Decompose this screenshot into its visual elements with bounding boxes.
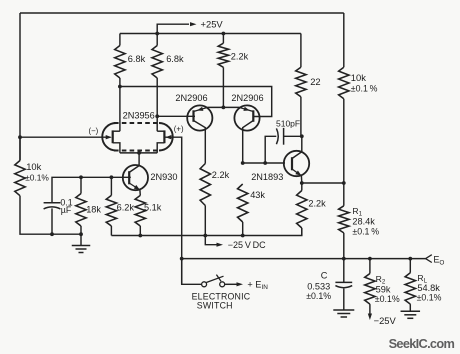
wire RL bottom lead <box>409 304 411 311</box>
wire R2 top lead <box>369 259 371 274</box>
label 2N3956 <box>123 110 155 120</box>
wire 510pF left lead <box>265 136 276 163</box>
power -25V DC arrowhead <box>217 243 224 247</box>
wire Q2 base feed <box>120 87 272 117</box>
capacitor 0.1uF curved plate <box>44 207 61 209</box>
label uF <box>61 205 72 215</box>
power +25V arrowhead <box>190 22 197 26</box>
svg-text:±0.1%: ±0.1% <box>417 292 442 302</box>
wire 6.8k R-B top lead <box>156 34 158 46</box>
svg-text:2.2k: 2.2k <box>231 51 249 61</box>
wire +25V rail to 22 <box>300 34 302 68</box>
label (+) input <box>174 125 184 134</box>
node C top junction <box>342 257 346 261</box>
node 2.2k mid bottom junction <box>203 234 207 238</box>
wire 2.2k Q3 bottom lead <box>301 228 303 236</box>
wire 18k top lead <box>80 177 82 193</box>
resistor 18k <box>76 194 86 227</box>
label SWITCH <box>197 301 233 311</box>
wire +25V rail <box>120 33 301 35</box>
ground symbol (bias network) <box>72 246 91 253</box>
label 0.533 <box>307 281 330 291</box>
wire top feedback rail (inverting input to 10k) <box>20 12 344 14</box>
wire 510pF right lead <box>284 135 302 137</box>
wire 22 bottom lead <box>300 97 302 137</box>
label +25V <box>201 18 224 29</box>
wire Q4 emitter lead <box>139 190 141 196</box>
svg-text:±0.1%: ±0.1% <box>25 172 49 182</box>
label R2 <box>376 274 386 286</box>
resistor 2.2k (Q1 load) <box>200 164 210 206</box>
wire C top lead <box>343 259 345 283</box>
transistor U1-B drain lead <box>157 130 164 132</box>
transistor Q4 base bar <box>128 171 130 184</box>
label 10k input tolerance <box>25 172 49 182</box>
dual-FET U1 capsule right arc <box>159 123 173 151</box>
svg-text:−25V: −25V <box>374 315 397 326</box>
transistor U1-B gate lead <box>165 137 181 284</box>
transistor Q3 collector <box>292 136 302 158</box>
svg-text:SWITCH: SWITCH <box>197 301 233 311</box>
node Q3 emitter junction <box>300 181 304 185</box>
wire 6.8k R-A bottom lead / Q-A drain <box>119 78 121 131</box>
svg-text:6.8k: 6.8k <box>128 54 146 64</box>
resistor R2 59k <box>365 274 375 305</box>
node 18k bottom junction <box>79 232 83 236</box>
resistor 5.1k <box>135 195 145 226</box>
label -25V DC <box>228 240 266 250</box>
node +25V tap junction <box>155 32 159 36</box>
node R2 top junction <box>368 257 372 261</box>
transistor Q3 emitter arrow (NPN) <box>295 171 301 176</box>
capacitor C top plate <box>335 281 352 283</box>
svg-text:43k: 43k <box>250 190 265 200</box>
wire switch branch <box>182 259 202 285</box>
wire ground rail <box>20 196 81 235</box>
capacitor 0.1uF top plate <box>44 202 61 204</box>
resistor 43k <box>238 184 248 222</box>
node 0.1uF bottom junction <box>50 232 54 236</box>
svg-text:(−): (−) <box>89 126 99 135</box>
label 18k <box>86 204 101 214</box>
transistor Q2 base bar <box>252 110 254 122</box>
svg-text:2N2906: 2N2906 <box>175 93 207 103</box>
wire R1 top lead <box>343 183 345 206</box>
label R1 tolerance <box>352 226 379 236</box>
wire 2.2k Q3 emitter leads <box>301 183 303 191</box>
switch contact right <box>220 282 225 287</box>
svg-text:18k: 18k <box>86 204 101 214</box>
node 510pF/22 junction <box>300 134 304 138</box>
label RL tolerance <box>417 292 442 302</box>
svg-text:C: C <box>321 270 328 280</box>
transistor Q1 collector <box>194 121 206 164</box>
resistor RL 54.8k <box>405 273 415 304</box>
node summing junction <box>180 257 184 261</box>
label C tolerance <box>306 291 331 301</box>
switch lever <box>206 276 223 282</box>
svg-text:28.4k: 28.4k <box>352 216 375 226</box>
wire 0.1uF bottom lead <box>51 208 53 234</box>
svg-text:10k: 10k <box>351 72 366 83</box>
wire Q1 base feed <box>157 115 195 117</box>
ground symbol (capacitor C) <box>333 310 354 317</box>
svg-text:2N930: 2N930 <box>150 172 177 182</box>
svg-text:5.1k: 5.1k <box>144 203 162 213</box>
label C <box>321 270 328 280</box>
node 18k top junction <box>79 175 83 179</box>
input E_IN arrowhead <box>237 282 244 286</box>
node 510pF tap <box>263 161 267 165</box>
switch contact left <box>202 282 207 287</box>
label 510pF <box>276 118 300 128</box>
label 2N2906 (Q1) <box>175 93 207 103</box>
wire 10k(-) top lead <box>19 137 21 160</box>
transistor Q2 emitter <box>240 108 254 112</box>
wire ground stub <box>80 234 82 245</box>
resistor 2.2k (emitter supply) <box>218 43 228 67</box>
label 6.8k (left) <box>128 54 146 64</box>
transistor Q4 circle <box>123 165 148 190</box>
wire 2.2k R-C bottom lead <box>222 67 224 107</box>
resistor 6.8k (right) <box>152 46 162 79</box>
transistor U1-B channel bar <box>163 130 165 143</box>
wire feedback top to 10k <box>343 13 345 67</box>
label 10k (input) <box>26 161 41 172</box>
label E_O <box>433 255 444 267</box>
label 22 <box>310 76 320 87</box>
switch lever tick <box>216 275 221 282</box>
resistor 2.2k (Q3 emitter) <box>297 191 307 229</box>
wire 10k bottom lead <box>343 99 345 183</box>
label 43k <box>250 190 265 200</box>
label 2N2906 (Q2) <box>231 93 263 103</box>
resistor 6.2k <box>106 195 116 226</box>
ground symbol (load) <box>401 311 421 318</box>
label ELECTRONIC <box>192 291 251 301</box>
wire 6.8k R-B bottom lead / Q-B drain <box>156 78 158 131</box>
wire 6.8k R-A top lead <box>119 34 121 46</box>
label 2.2k (Q1 load) <box>212 170 230 180</box>
wire 43k bottom lead <box>242 222 244 236</box>
wire 2.2k mid bottom lead <box>204 206 206 236</box>
transistor Q3 emitter <box>292 169 302 176</box>
wire 0.1uF top lead <box>52 177 81 202</box>
label 10k (feedback) <box>351 72 366 83</box>
wire RL top lead <box>409 259 411 273</box>
svg-text:±0.1 %: ±0.1 % <box>351 84 378 94</box>
svg-text:6.8k: 6.8k <box>166 54 184 64</box>
transistor U1-A source lead <box>113 143 120 153</box>
svg-text:+25V: +25V <box>201 18 224 29</box>
svg-text:22: 22 <box>310 76 320 87</box>
label 5.1k <box>144 203 162 213</box>
node emitter rail junction <box>222 106 226 110</box>
wire C bottom lead <box>343 289 345 310</box>
dual-FET U1 capsule top dashed <box>114 122 161 124</box>
svg-text:510pF: 510pF <box>276 118 300 128</box>
transistor Q2 circle <box>234 105 259 130</box>
label 54.8k <box>417 283 440 293</box>
node source junction <box>137 151 141 155</box>
dual-FET U1 capsule left arc <box>102 123 116 151</box>
output E_O open arrow <box>426 255 432 263</box>
wire 2.2k R-C top lead <box>222 34 224 44</box>
wire 2N930 base line <box>81 176 131 178</box>
label 0.1% (feedback) <box>351 84 378 94</box>
wire 18k bottom lead <box>80 226 82 234</box>
wire source to 2N930 collector <box>138 153 140 165</box>
label R2 tolerance <box>375 294 400 304</box>
label 6.8k (right) <box>166 54 184 64</box>
node drain-B junction <box>155 114 159 118</box>
svg-text:±0.1%: ±0.1% <box>306 291 331 301</box>
wire left vertical (inverting input column) <box>19 13 21 161</box>
label (-) input <box>89 126 99 135</box>
svg-text:54.8k: 54.8k <box>417 283 440 293</box>
resistor 10k 0.1% (input) <box>15 161 25 196</box>
transistor Q4 emitter <box>129 183 140 190</box>
svg-text:±0.1 %: ±0.1 % <box>352 226 379 236</box>
transistor Q1 circle <box>187 105 212 130</box>
svg-text:2N2906: 2N2906 <box>231 93 263 103</box>
label 6.2k <box>117 203 135 213</box>
transistor U1-A gate arrow <box>106 135 112 139</box>
svg-text:2N1893: 2N1893 <box>251 172 283 182</box>
svg-text:±0.1%: ±0.1% <box>375 294 400 304</box>
watermark SeekIC.com <box>389 336 455 351</box>
dual-FET U1 capsule bottom dashed <box>114 150 161 152</box>
svg-text:6.2k: 6.2k <box>117 203 135 213</box>
wire Q2 collector to 2N1893 base <box>243 162 285 164</box>
wire emitter rail <box>207 106 239 108</box>
wire emitter node to R1 <box>302 182 344 184</box>
transistor Q2 emitter arrow (PNP) <box>243 107 249 111</box>
transistor U1-B source lead <box>157 143 164 153</box>
label -25V <box>374 315 397 326</box>
wire 5.1k bottom lead <box>139 226 141 236</box>
node 43k bottom junction <box>241 234 245 238</box>
transistor U1-B gate arrow <box>165 135 171 139</box>
node base feed junction (Q2 base line) <box>118 85 122 89</box>
transistor Q2 collector <box>243 121 254 164</box>
power -25V arrowhead (R2) <box>368 314 372 321</box>
wire source rail <box>120 152 157 154</box>
transistor Q4 collector <box>129 166 139 173</box>
transistor Q1 base bar <box>192 110 194 122</box>
svg-text:(+): (+) <box>174 125 184 134</box>
node inverting input junction <box>18 135 22 139</box>
wire R1 bottom lead <box>343 233 345 259</box>
node R1 top junction <box>342 181 346 185</box>
label RL <box>417 273 427 285</box>
svg-text:SeekIC.com: SeekIC.com <box>389 336 455 351</box>
capacitor C curved plate <box>335 286 352 288</box>
wire E_IN lead <box>225 283 237 285</box>
svg-text:−25 V DC: −25 V DC <box>228 240 266 250</box>
label 2N930 <box>150 172 177 182</box>
wire 6.2k top lead <box>110 177 112 195</box>
wire 6.2k bottom lead <box>110 226 112 236</box>
resistor 6.8k (left) <box>115 46 125 79</box>
node 6.2k top junction <box>110 175 114 179</box>
wire (-) gate lead <box>20 136 111 138</box>
node RL top junction <box>408 257 412 261</box>
resistor 22 <box>296 67 306 97</box>
label 2.2k (Q3 emitter) <box>308 198 326 208</box>
capacitor 510pF straight plate <box>283 128 285 145</box>
node 5.1k bottom junction <box>138 234 142 238</box>
transistor Q3 base bar <box>291 157 293 170</box>
label + E_IN <box>247 279 268 291</box>
transistor Q1 emitter <box>194 108 208 112</box>
label 2.2k (emitter supply) <box>231 51 249 61</box>
resistor R1 28.4k <box>339 206 349 233</box>
node Q2 collector junction <box>241 161 245 165</box>
capacitor 510pF curved plate <box>276 128 278 144</box>
transistor Q4 emitter arrow (NPN) <box>134 185 140 190</box>
label 59k <box>376 285 391 295</box>
svg-text:59k: 59k <box>376 285 391 295</box>
svg-text:µF: µF <box>61 205 72 215</box>
label R1 <box>352 206 362 218</box>
node 2.2k top junction <box>222 32 226 36</box>
svg-text:2.2k: 2.2k <box>308 198 326 208</box>
wire Q3 emitter lead <box>300 176 302 183</box>
wire -25V DC tap <box>205 236 216 245</box>
transistor Q3 circle <box>284 151 309 176</box>
transistor U1-A drain lead <box>113 130 120 132</box>
svg-text:2.2k: 2.2k <box>212 170 230 180</box>
transistor U1-A channel bar <box>112 130 114 143</box>
label 2N1893 <box>251 172 283 182</box>
label 0.1 <box>60 197 72 207</box>
wire output rail <box>182 258 426 260</box>
svg-text:2N3956: 2N3956 <box>123 110 155 120</box>
transistor Q1 emitter arrow (PNP) <box>197 107 203 111</box>
wire +25V arrow stub <box>157 24 189 33</box>
wire -25V rail <box>111 228 301 236</box>
label 28.4k <box>352 216 375 226</box>
resistor 10k 0.1% (feedback) <box>339 67 349 99</box>
svg-text:10k: 10k <box>26 161 41 172</box>
wire R2 bottom lead <box>369 304 371 313</box>
